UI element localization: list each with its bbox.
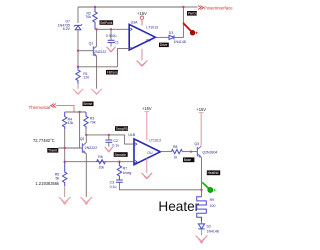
wire R3 bottom to collector node [85, 129, 87, 135]
svg-text:2N2222: 2N2222 [94, 50, 106, 54]
svg-text:72.77482°C: 72.77482°C [33, 138, 55, 143]
resistor R9 100 (heater element) [197, 197, 207, 222]
wire R5 to ground [64, 186, 66, 197]
resistor R1 120 [76, 67, 80, 84]
transistor Q1 2N2222 [93, 46, 96, 56]
wire Q2 base riser [79, 112, 81, 148]
wire U3A output [155, 36, 168, 38]
wire Q1 base [78, 50, 93, 52]
wire D7 bottom [77, 30, 79, 67]
wire D2 to ground [201, 229, 203, 235]
svg-text:R9: R9 [210, 198, 215, 202]
svg-text:Heater: Heater [158, 199, 199, 214]
node D7 / Q1 base junction [77, 50, 79, 52]
wire emitter node to ground [96, 67, 98, 89]
wire Q1 collector [96, 29, 98, 46]
svg-text:LT1013: LT1013 [146, 26, 158, 30]
net label Sense (selected) [83, 102, 94, 107]
svg-text:1N4148: 1N4148 [174, 40, 186, 44]
svg-text:FBTemp: FBTemp [107, 71, 119, 75]
resistor R7 1meg [117, 162, 121, 180]
resistor R3 70k [84, 112, 88, 129]
svg-text:10k: 10k [98, 165, 104, 169]
wire sense rail (to U1B -) [65, 161, 134, 163]
svg-text:1N4148: 1N4148 [207, 230, 219, 234]
wire C3 bottom to heater node [119, 183, 201, 190]
wire U1B output [160, 151, 171, 153]
wire stub top rail to connector [183, 6, 197, 8]
node heater feedback junction [200, 189, 202, 191]
svg-text:120: 120 [83, 76, 89, 80]
net label PwrOut (selected) [187, 11, 197, 16]
node Q1 collector junction [95, 28, 97, 30]
wire thermostat input [56, 106, 74, 112]
svg-text:SetPoint: SetPoint [100, 21, 112, 25]
svg-text:5k: 5k [55, 176, 59, 180]
node junction top rail / R2 [94, 6, 96, 8]
wire setpoint node (to U3A +) [95, 28, 129, 30]
voltage probe (red) on output riser [183, 23, 191, 32]
ground arrow below C1 [107, 47, 116, 52]
wire R1 to ground [77, 84, 79, 89]
wire U3A inverting input riser [118, 48, 130, 66]
capacitor C1 0.002u [110, 29, 112, 40]
net label Drive (selected) [159, 43, 169, 48]
node C1 junction [110, 28, 112, 30]
diode D3 1N4148 [169, 35, 174, 39]
resistor R2 70k [93, 7, 97, 29]
svg-text:70k: 70k [90, 120, 96, 124]
wire R8 to Q3 base [182, 151, 197, 153]
ground below R1 [73, 89, 83, 95]
wire D7 top stub [77, 7, 79, 23]
svg-text:D3: D3 [169, 31, 174, 35]
svg-text:HeatNd: HeatNd [208, 171, 219, 175]
capacitor C3 0.1u [116, 180, 123, 182]
net label Therm (selected) [47, 148, 58, 153]
node R4 base junction [63, 147, 65, 149]
wire R4 divider riser [64, 129, 66, 161]
svg-text:Sense: Sense [83, 102, 92, 106]
wire C2 bottom stub [108, 143, 110, 147]
op-amp U3A LT1013 [129, 24, 155, 50]
svg-text:2N2222: 2N2222 [85, 146, 97, 150]
svg-text:0.002u: 0.002u [106, 34, 117, 38]
node C2 junction [108, 134, 110, 136]
svg-text:Powerinterface: Powerinterface [204, 5, 233, 10]
svg-text:Base: Base [184, 158, 191, 162]
wire divider top rail [65, 111, 86, 113]
svg-text:OU: OU [147, 151, 153, 155]
svg-text:U1B: U1B [128, 133, 135, 137]
svg-text:U3A: U3A [131, 20, 138, 24]
wire top feedback rail [78, 6, 183, 8]
svg-text:D2: D2 [207, 225, 212, 229]
wire C1 bottom stub [110, 43, 112, 47]
op-amp U1B LT1013 [134, 139, 160, 165]
wire collector node to U1B + [86, 135, 134, 144]
svg-text:+15V: +15V [142, 106, 152, 111]
ground arrow below C2 [105, 147, 113, 152]
wire lower rail of top stage [78, 66, 118, 68]
capacitor C2 0.1u [108, 135, 110, 140]
svg-text:Q2N3904: Q2N3904 [202, 150, 217, 154]
wire Q2 base [58, 147, 82, 149]
net label HeatNode (selected) [207, 170, 220, 175]
svg-text:70k: 70k [85, 15, 91, 19]
resistor R4 13k [62, 112, 66, 129]
zener diode D7 1N4735 6.2V [74, 24, 82, 30]
svg-text:Q1: Q1 [89, 42, 94, 46]
off-page connector PowerInterface [198, 6, 204, 10]
net label SetPoint (selected) [100, 20, 114, 25]
ground below D2 [196, 236, 208, 244]
svg-text:R6: R6 [98, 155, 103, 159]
resistor R6 10k [97, 160, 106, 164]
diode D2 1N4148 [201, 221, 203, 223]
net label Base (selected) [183, 157, 194, 162]
node R5 junction [63, 161, 65, 163]
net label FBTemp (selected) [106, 70, 118, 75]
svg-text:R8: R8 [173, 145, 178, 149]
transistor Q3 Q2N3904 [197, 146, 201, 157]
svg-text:C1: C1 [114, 40, 119, 44]
svg-text:Q2: Q2 [80, 137, 85, 141]
svg-text:13k: 13k [68, 121, 74, 125]
wire U1B V+ [146, 112, 148, 141]
wire Q2 collector [85, 135, 88, 143]
wire Q1 emitter [96, 56, 98, 67]
wire D3 to riser [174, 7, 183, 37]
svg-text:+15V: +15V [137, 11, 147, 16]
svg-text:PwrOut: PwrOut [188, 12, 199, 16]
svg-text:SenseIn: SenseIn [115, 153, 127, 157]
wire U3A V+ [141, 19, 143, 25]
node R3/collector junction [85, 134, 87, 136]
net label SenseIn (selected) [114, 152, 128, 157]
svg-text:0.1u: 0.1u [110, 185, 117, 189]
svg-text:0.1u: 0.1u [112, 143, 119, 147]
node junction top rail / output riser [182, 6, 184, 8]
ground below U1B [141, 173, 152, 179]
svg-text:+15V: +15V [196, 107, 206, 112]
svg-text:Therm: Therm [48, 149, 58, 153]
svg-text:TempFB: TempFB [116, 127, 128, 131]
svg-text:C3: C3 [110, 181, 115, 185]
ground below U3A [137, 61, 148, 67]
svg-text:100: 100 [210, 204, 216, 208]
wire U3A V- [141, 49, 143, 61]
transistor Q2 2N2222 [82, 143, 85, 153]
wire Q3 collector [200, 113, 202, 147]
svg-text:1.21938356k: 1.21938356k [35, 181, 60, 186]
svg-text:OU: OU [146, 38, 152, 42]
ground below Q2 emitter [81, 197, 93, 204]
ground below R5 [59, 197, 71, 204]
resistor R5 5k [62, 162, 66, 186]
wire U1B V- [146, 158, 148, 173]
net label TempFB (selected) [115, 126, 128, 131]
svg-text:Thermostat: Thermostat [29, 105, 52, 110]
ground below Q1 emitter node [91, 89, 101, 95]
node R1 top junction [77, 66, 79, 68]
node Q3 base wire dot [190, 151, 192, 153]
node R7 junction [118, 161, 120, 163]
svg-text:Q3: Q3 [194, 142, 199, 146]
svg-text:1meg: 1meg [123, 171, 132, 175]
svg-text:6.2V: 6.2V [63, 27, 71, 31]
svg-text:Drive: Drive [160, 43, 168, 47]
wire Q2 emitter [85, 153, 88, 197]
wire Q3 emitter / heater column [200, 157, 202, 196]
resistor R8 1k [171, 150, 182, 154]
node Q2 base riser junction [78, 111, 80, 113]
svg-text:LT1013: LT1013 [149, 138, 161, 142]
voltage probe (green) on heater node [202, 182, 209, 189]
svg-text:1k: 1k [174, 155, 178, 159]
